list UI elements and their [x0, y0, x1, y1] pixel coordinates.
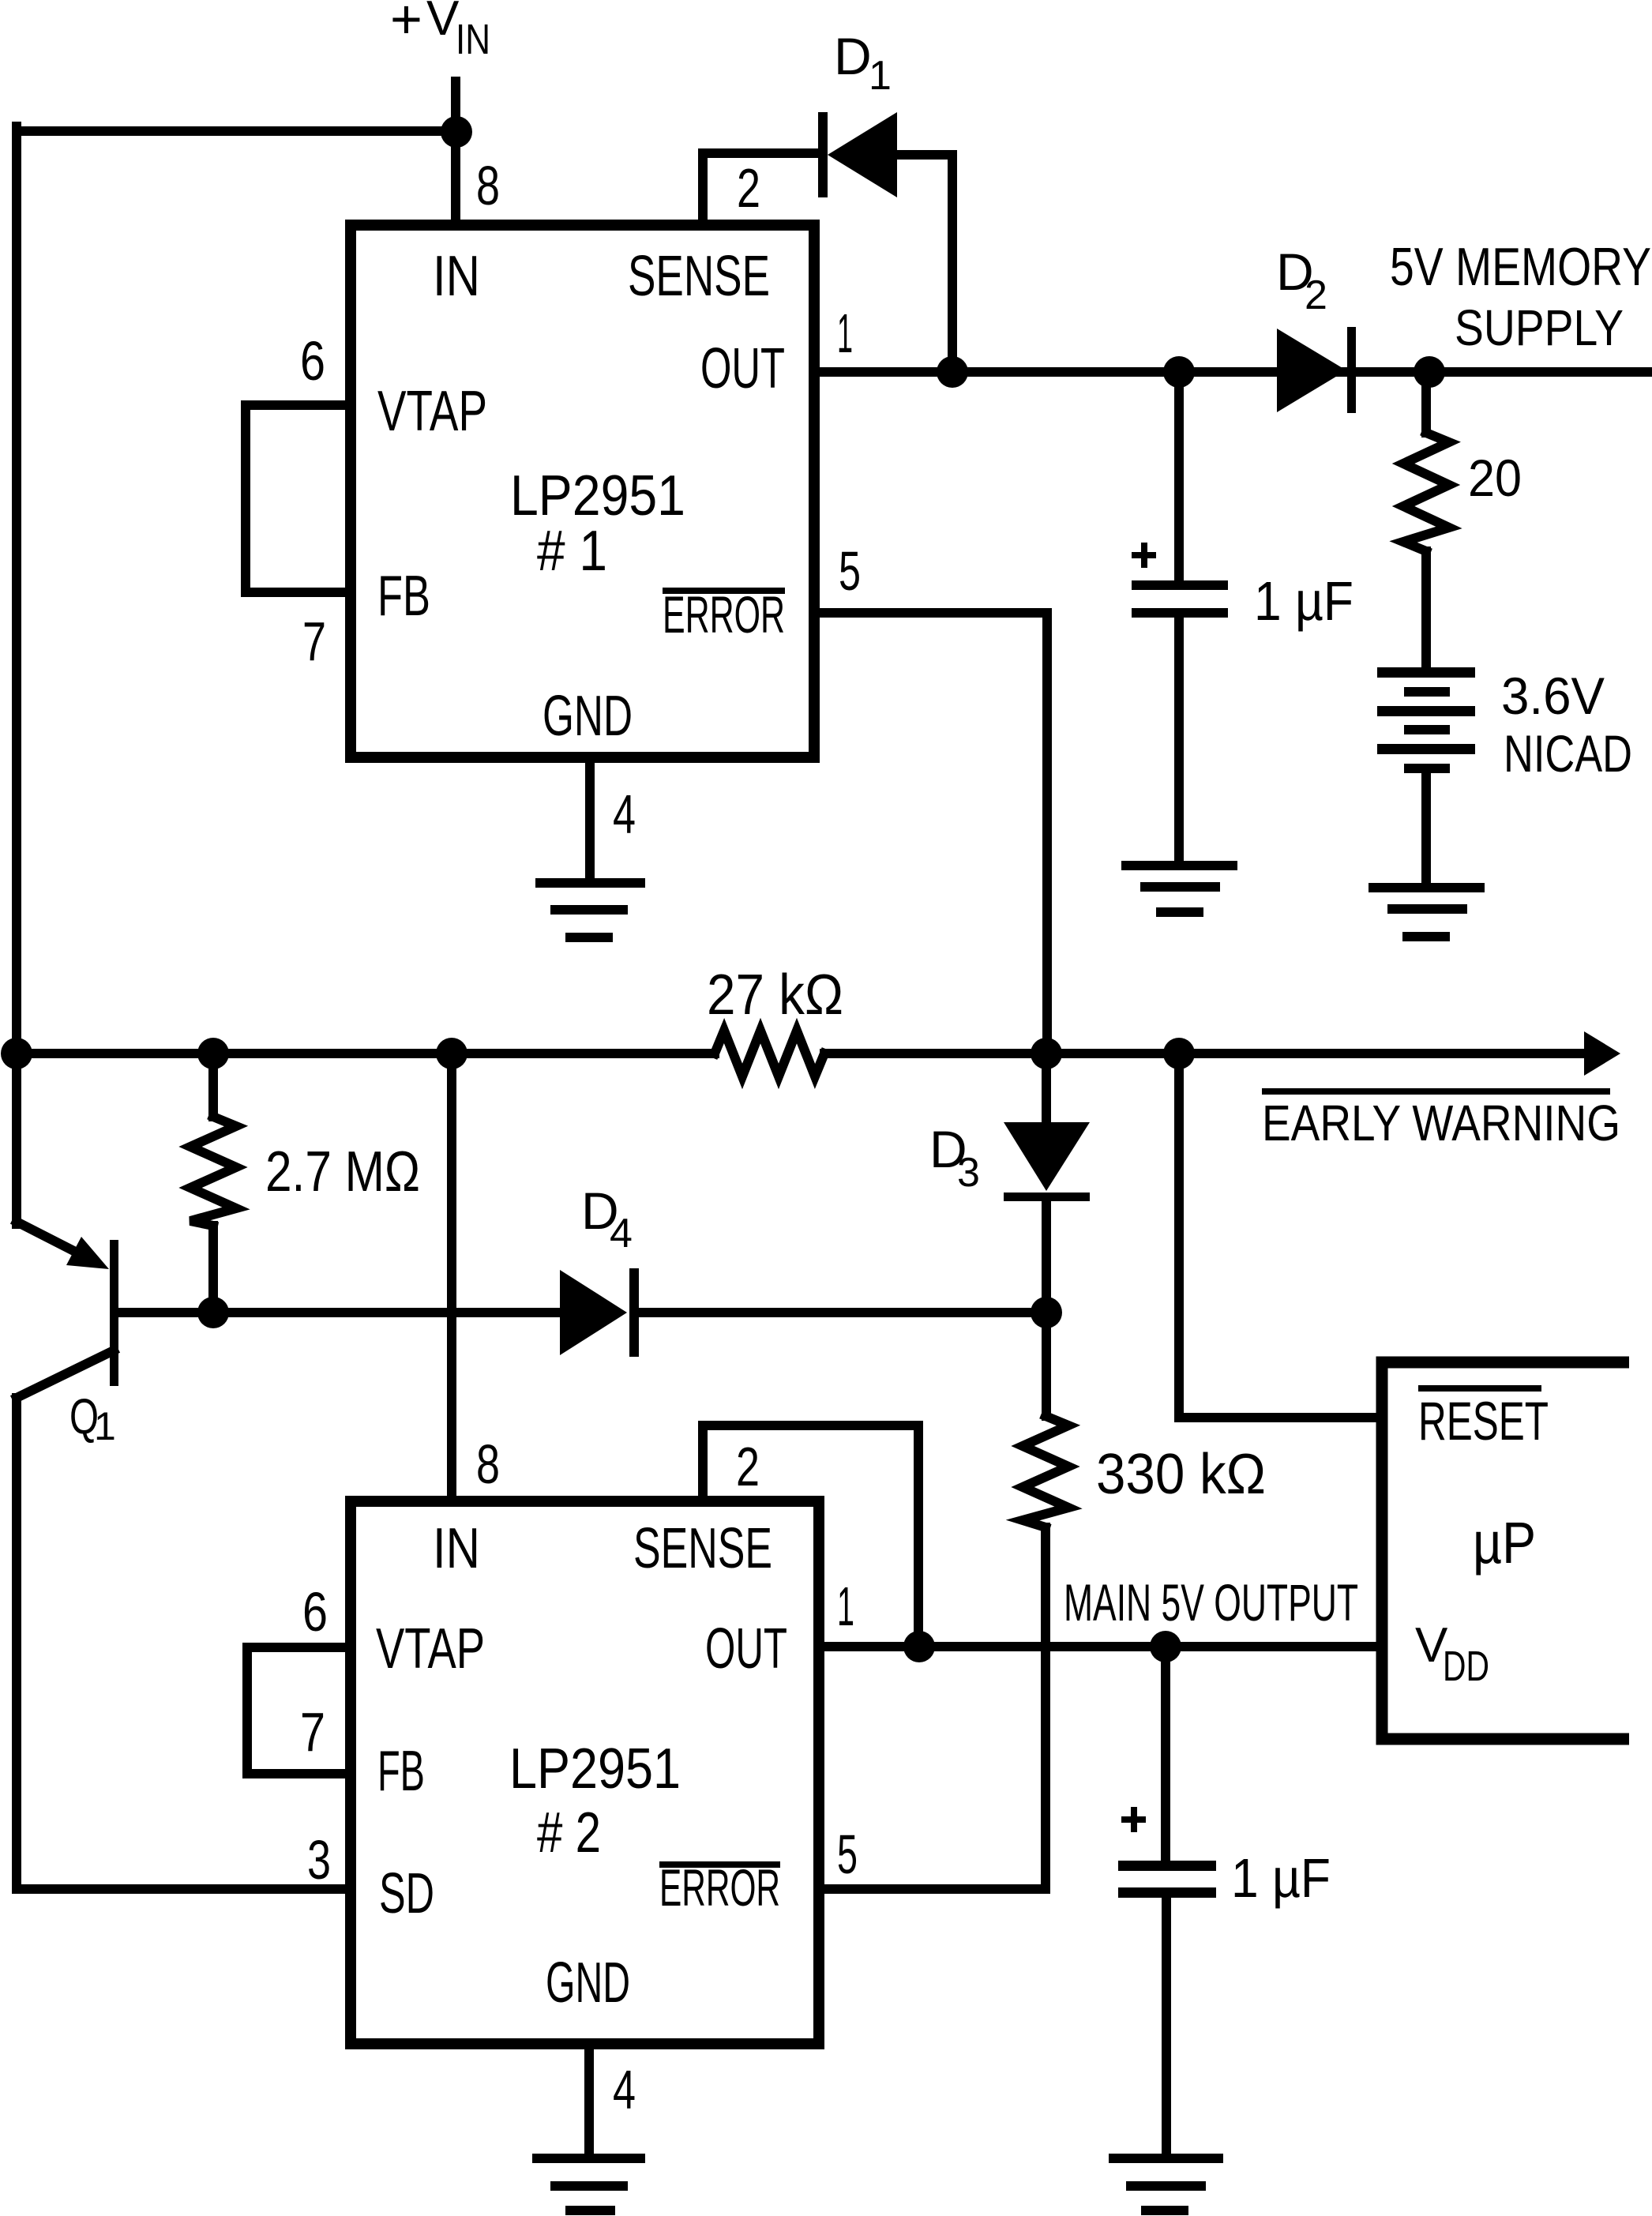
svg-text:5: 5 [837, 1824, 858, 1885]
svg-text:3: 3 [307, 1829, 331, 1891]
junction bus/early warning takeoff [1163, 1038, 1195, 1069]
wire battery bottom lead [1421, 773, 1431, 885]
svg-text:EARLY WARNING: EARLY WARNING [1262, 1095, 1620, 1151]
wire SENSE pin2 U1 to D1 cathode [703, 153, 818, 225]
wire OUT U2 / main 5V output line [819, 1642, 1376, 1651]
svg-text:3: 3 [957, 1150, 980, 1196]
junction bus/D3 [1031, 1038, 1062, 1069]
diode D1 [818, 112, 897, 197]
wire D4 cathode to D3 node [639, 1308, 1046, 1317]
svg-text:# 1: # 1 [537, 520, 607, 583]
wire OUT U1 / 5V memory supply line [814, 367, 1652, 377]
label D3 [929, 1120, 980, 1196]
svg-text:SD: SD [379, 1862, 434, 1925]
wire pin8 stub U2 [447, 1054, 456, 1501]
wire C2 bottom lead [1162, 1898, 1171, 2155]
svg-text:D: D [834, 27, 872, 85]
wire VTAP-FB loop U1 (pins 6-7) [246, 405, 351, 592]
svg-text:RESET: RESET [1418, 1391, 1549, 1452]
svg-text:FB: FB [377, 1740, 425, 1803]
svg-text:DD: DD [1443, 1643, 1489, 1690]
junction bus/left rail [1, 1038, 32, 1069]
resistor 27 kOhm [715, 1031, 824, 1076]
net label 5V MEMORY SUPPLY [1390, 237, 1651, 356]
junction D1/OUT [937, 356, 968, 388]
label D1 [834, 27, 892, 99]
junction D3/D4/330k node [1031, 1297, 1062, 1328]
svg-text:5V MEMORY: 5V MEMORY [1390, 237, 1651, 297]
svg-text:LP2951: LP2951 [510, 464, 685, 528]
wire VTAP-FB loop U2 (pins 6-7) [247, 1647, 351, 1774]
wire D3 anode lead [1042, 1054, 1051, 1122]
label Q1 [69, 1389, 116, 1448]
battery 3.6V NICAD [1377, 667, 1475, 773]
label D4 [581, 1181, 633, 1256]
capacitor C1 1uF [1132, 543, 1228, 618]
junction C2 / OUT U2 [1150, 1631, 1181, 1662]
value label 3.6V NICAD [1501, 667, 1632, 783]
resistor 20 [1403, 433, 1449, 551]
junction C1/OUT [1163, 356, 1195, 388]
ground (U1 GND) [535, 878, 645, 942]
junction SENSE loop / OUT U2 [903, 1631, 935, 1662]
resistor 2.7 MOhm [190, 1117, 236, 1226]
wire pin8 stub U1 [451, 132, 460, 225]
svg-text:FB: FB [377, 565, 430, 628]
svg-text:7: 7 [300, 1701, 325, 1763]
svg-text:V: V [426, 0, 460, 46]
pin label RESET (uP) with overline [1418, 1385, 1549, 1452]
svg-text:GND: GND [546, 1951, 630, 2015]
svg-text:27 kΩ: 27 kΩ [707, 963, 843, 1027]
junction VIN node [441, 116, 472, 148]
ground (U2 GND) [532, 2154, 645, 2215]
wire ERROR pin5 U1 to bus [814, 613, 1047, 1054]
wire middle bus left segment [17, 1049, 715, 1058]
wire D1 anode to OUT line [897, 155, 952, 372]
svg-text:1 µF: 1 µF [1231, 1847, 1331, 1909]
svg-text:SENSE: SENSE [633, 1517, 772, 1580]
wire R2.7M bottom lead [208, 1226, 218, 1313]
svg-text:1: 1 [837, 1576, 854, 1637]
label D2 [1276, 242, 1327, 318]
IC U1 LP2951 #1 box [351, 225, 814, 757]
transistor Q1 [17, 1222, 118, 1398]
svg-text:LP2951: LP2951 [509, 1737, 681, 1801]
svg-text:+: + [390, 0, 422, 50]
arrowhead early warning [1584, 1031, 1620, 1076]
svg-text:2: 2 [737, 157, 760, 219]
svg-text:1: 1 [837, 302, 853, 364]
wire C1 bottom lead [1174, 618, 1184, 862]
svg-text:2: 2 [736, 1436, 760, 1497]
wire +VIN stub [451, 81, 460, 132]
wire 330k bottom to ERROR pin5 U2 [824, 1527, 1046, 1889]
microprocessor uP box [1382, 1362, 1629, 1739]
svg-text:7: 7 [302, 610, 326, 672]
IC U2 LP2951 #2 box [351, 1501, 819, 2044]
part name LP2951 #2 [509, 1737, 681, 1865]
svg-text:2: 2 [1305, 272, 1327, 318]
diode D2 [1277, 327, 1356, 413]
svg-text:IN: IN [433, 245, 480, 308]
ground (C2) [1109, 2154, 1223, 2215]
junction bus/R 2.7M [197, 1038, 229, 1069]
wire 330k top lead [1042, 1313, 1051, 1416]
svg-text:MAIN 5V OUTPUT: MAIN 5V OUTPUT [1064, 1573, 1358, 1632]
diode D4 [560, 1268, 639, 1357]
svg-text:VTAP: VTAP [377, 380, 487, 443]
wire GND pin4 U2 [584, 2044, 594, 2155]
svg-text:1: 1 [869, 53, 892, 99]
ground (C1) [1121, 861, 1237, 917]
svg-text:OUT: OUT [700, 337, 785, 400]
wire battery top lead [1421, 551, 1431, 667]
pin label VDD (uP) [1415, 1618, 1489, 1690]
svg-text:# 2: # 2 [537, 1801, 601, 1865]
wire SENSE pin2 U2 loop to OUT [703, 1425, 918, 1647]
wire C1 top lead [1174, 372, 1184, 580]
wire top rail from VIN node to left rail [17, 126, 456, 136]
power label +VIN [390, 0, 490, 63]
wire left rail upper (top rail to Q1 emitter bend) [12, 126, 21, 1224]
resistor 330 kOhm [1023, 1416, 1068, 1527]
wire early warning to uP RESET [1179, 1054, 1376, 1418]
svg-text:3.6V: 3.6V [1501, 667, 1605, 725]
svg-text:VTAP: VTAP [376, 1617, 485, 1681]
pin label ERROR (U2) with overline [659, 1858, 780, 1917]
svg-text:GND: GND [543, 685, 633, 748]
junction base/R2.7M [197, 1297, 229, 1328]
svg-text:IN: IN [433, 1517, 480, 1580]
svg-text:IN: IN [456, 16, 490, 63]
svg-text:4: 4 [610, 1211, 633, 1256]
svg-text:ERROR: ERROR [663, 585, 785, 644]
wire Q1 base to D4 anode [118, 1308, 560, 1317]
junction bus/pin8 U2 [436, 1038, 467, 1069]
svg-text:NICAD: NICAD [1504, 724, 1632, 783]
capacitor C2 1uF [1118, 1807, 1216, 1898]
wire R2.7M top lead [208, 1054, 218, 1117]
diode D3 [1004, 1122, 1090, 1201]
svg-text:2.7 MΩ: 2.7 MΩ [265, 1140, 420, 1204]
svg-text:330 kΩ: 330 kΩ [1096, 1443, 1266, 1506]
wire middle bus right segment / early warning line [824, 1049, 1586, 1058]
wire left rail lower (Q1 collector to SD pin3 U2) [17, 1398, 351, 1889]
svg-text:5: 5 [839, 540, 861, 602]
part name LP2951 #1 [510, 464, 685, 583]
wire D3 cathode lead [1042, 1201, 1051, 1313]
svg-text:µP: µP [1473, 1510, 1536, 1576]
pin label ERROR (U1) with overline [663, 585, 785, 644]
svg-text:8: 8 [476, 155, 500, 216]
svg-text:OUT: OUT [705, 1617, 787, 1681]
svg-text:ERROR: ERROR [659, 1858, 780, 1917]
junction D2 cathode node [1414, 356, 1445, 388]
svg-text:4: 4 [613, 783, 636, 845]
svg-text:20: 20 [1468, 449, 1522, 507]
wire C2 top lead [1161, 1647, 1170, 1861]
wire 20 ohm top lead [1421, 372, 1431, 433]
wire GND pin4 U1 [585, 757, 595, 880]
svg-text:1: 1 [94, 1404, 116, 1448]
net label EARLY WARNING with overline [1262, 1088, 1620, 1151]
svg-text:SENSE: SENSE [628, 245, 770, 308]
svg-text:6: 6 [300, 330, 325, 392]
svg-text:1 µF: 1 µF [1254, 570, 1354, 632]
svg-text:6: 6 [302, 1581, 328, 1643]
ground (battery) [1369, 883, 1485, 941]
svg-text:SUPPLY: SUPPLY [1455, 299, 1624, 356]
svg-text:8: 8 [476, 1433, 500, 1495]
svg-text:4: 4 [613, 2059, 636, 2120]
